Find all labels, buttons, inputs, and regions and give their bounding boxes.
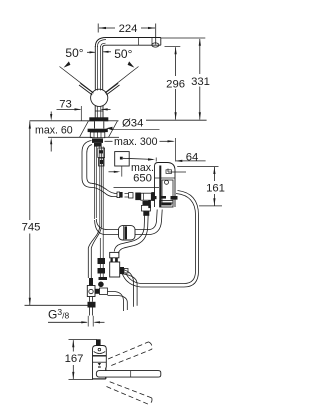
svg-text:50°: 50°: [65, 46, 83, 60]
bottom view: dimension 167: [65, 340, 97, 380]
bottom view: swivel range dashed: [107, 342, 152, 404]
bottom view: swivel and solid spout: [93, 368, 161, 379]
power supply box: [115, 152, 130, 166]
spray hose loop left: [82, 141, 117, 197]
bottom view: faucet body: [93, 339, 107, 379]
svg-text:73: 73: [59, 98, 72, 110]
faucet body below ball: [89, 106, 108, 121]
unit bottom connectors: [148, 196, 177, 208]
valve box right: [110, 252, 128, 277]
angle 50 deg left: [60, 46, 96, 92]
hose bundle below faucet: [95, 147, 105, 227]
capsule hose: [95, 210, 163, 241]
tee below coupling: [114, 201, 150, 253]
dimension 161: [177, 166, 225, 206]
supply hose to G3/8 column: [88, 226, 101, 278]
reference line under 650: [114, 186, 160, 188]
svg-text:224: 224: [119, 23, 138, 35]
svg-text:167: 167: [65, 353, 84, 365]
dimension 296: [165, 46, 186, 119]
G3/8 fitting column: [87, 278, 95, 316]
svg-text:161: 161: [206, 182, 225, 194]
dimension 745: [22, 121, 89, 305]
tee right hose open end: [108, 292, 128, 312]
coupling on spray hose: [117, 192, 155, 201]
shank and mounting below counter: [88, 121, 108, 146]
svg-text:64: 64: [186, 151, 199, 163]
label G 3/8: [48, 307, 105, 327]
dimension 64: [156, 151, 205, 163]
valve feed column: [95, 224, 108, 295]
svg-text:296: 296: [166, 78, 185, 90]
label diameter 34: [106, 118, 159, 131]
svg-text:331: 331: [191, 76, 210, 88]
valve right hose open end: [120, 269, 138, 307]
ball joint: [91, 89, 108, 106]
label max. 650: [109, 158, 156, 184]
svg-text:Ø34: Ø34: [122, 118, 143, 130]
svg-text:745: 745: [22, 222, 41, 234]
lever right position: [105, 83, 120, 95]
svg-text:max. 300: max. 300: [114, 136, 158, 148]
counter bottom line: [48, 136, 119, 138]
dimension max. 60: [35, 112, 73, 152]
dimension max. 300: [105, 136, 176, 161]
control unit: [155, 163, 187, 208]
dimension 331: [161, 38, 210, 120]
unit outlet hose going down: [122, 191, 199, 288]
counter break marks: [80, 121, 118, 138]
spout and vertical pipe: [95, 38, 161, 91]
dimension 224: [98, 23, 156, 45]
lever left position: [79, 83, 94, 95]
svg-text:max. 60: max. 60: [35, 125, 73, 137]
svg-text:650: 650: [133, 173, 152, 185]
counter top line: [30, 119, 207, 122]
svg-text:G3/8: G3/8: [48, 307, 69, 322]
angle 50 deg right: [102, 47, 138, 92]
svg-text:50°: 50°: [114, 47, 132, 61]
dimension 73: [57, 98, 111, 121]
